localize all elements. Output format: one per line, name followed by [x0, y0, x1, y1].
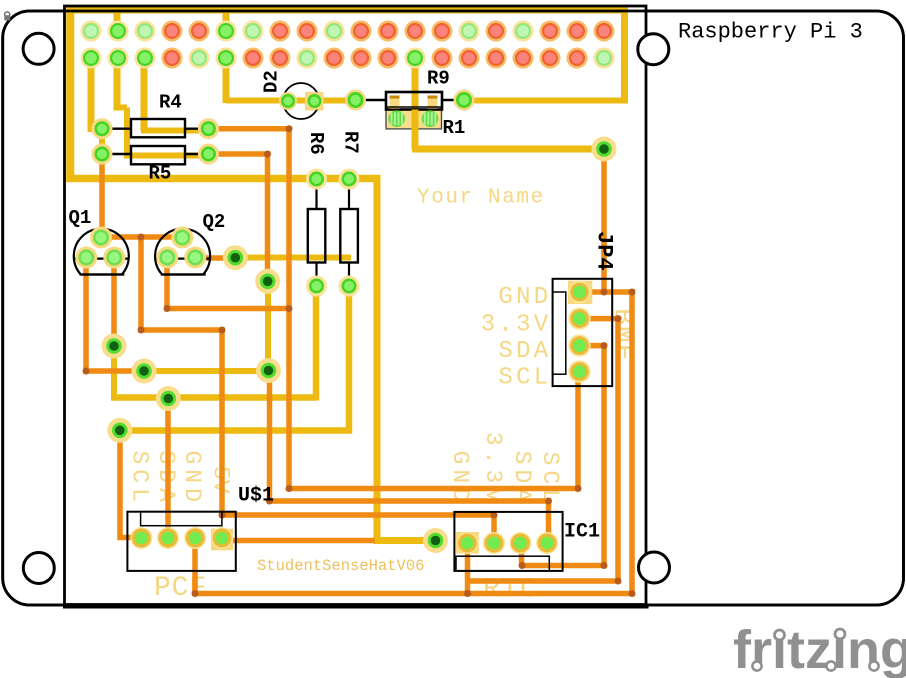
svg-text:StudentSenseHatV06: StudentSenseHatV06 — [257, 557, 424, 575]
svg-text:D2: D2 — [261, 70, 283, 93]
svg-text:SCL: SCL — [127, 451, 153, 507]
svg-text:R4: R4 — [159, 91, 182, 113]
svg-text:U$1: U$1 — [238, 485, 274, 508]
svg-text:Raspberry Pi 3: Raspberry Pi 3 — [678, 20, 863, 45]
svg-text:R6: R6 — [305, 132, 327, 155]
svg-text:Your Name: Your Name — [417, 187, 545, 210]
svg-text:SCL: SCL — [498, 365, 551, 392]
svg-text:R5: R5 — [149, 162, 172, 184]
svg-text:3.3V: 3.3V — [481, 312, 552, 339]
svg-text:GND: GND — [179, 451, 205, 507]
svg-text:JP4: JP4 — [591, 231, 616, 271]
svg-text:IC1: IC1 — [564, 521, 600, 544]
svg-text:SDA: SDA — [498, 338, 551, 365]
svg-text:R7: R7 — [339, 131, 361, 154]
svg-text:R9: R9 — [427, 68, 450, 90]
svg-text:Q1: Q1 — [69, 207, 92, 229]
svg-text:3.3V: 3.3V — [480, 432, 506, 507]
svg-text:Q2: Q2 — [203, 211, 226, 233]
svg-text:PCF: PCF — [154, 573, 207, 604]
svg-text:GND: GND — [498, 284, 551, 311]
svg-text:R1: R1 — [443, 117, 466, 139]
